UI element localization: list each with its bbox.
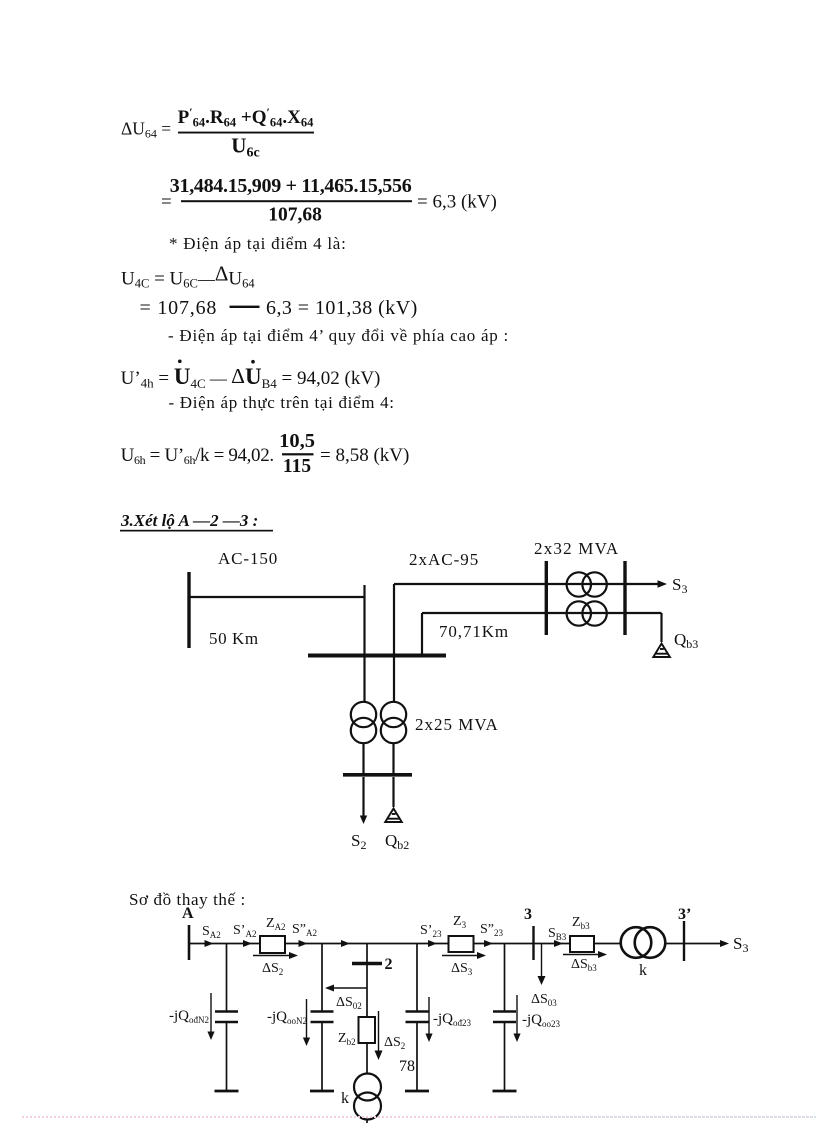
svg-text:-jQooN2: -jQooN2 <box>267 1009 307 1026</box>
svg-text:6,3 = 101,38 (kV): 6,3 = 101,38 (kV) <box>266 297 418 319</box>
svg-text:2x25 MVA: 2x25 MVA <box>415 715 499 734</box>
svg-text:= 6,3 (kV): = 6,3 (kV) <box>417 192 497 213</box>
svg-text:31,484.15,909 + 11,465.15,556: 31,484.15,909 + 11,465.15,556 <box>170 175 412 197</box>
svg-text:S”23: S”23 <box>480 922 504 938</box>
svg-text:ΔSb3: ΔSb3 <box>571 957 597 973</box>
svg-text:Qb3: Qb3 <box>674 630 698 651</box>
svg-text:= 8,58 (kV): = 8,58 (kV) <box>320 445 409 466</box>
svg-text:70,71Km: 70,71Km <box>439 622 509 641</box>
svg-text:S3: S3 <box>672 575 687 596</box>
svg-text:S’23: S’23 <box>420 923 442 939</box>
svg-text:ΔS2: ΔS2 <box>384 1035 405 1051</box>
svg-text:U6c: U6c <box>231 134 259 161</box>
svg-text:= 107,68: = 107,68 <box>140 297 218 319</box>
svg-text:Z3: Z3 <box>453 914 467 930</box>
svg-text:U6h = U’6h/k = 94,02.: U6h = U’6h/k = 94,02. <box>121 445 274 467</box>
svg-text:50 Km: 50 Km <box>209 629 259 648</box>
svg-text:3: 3 <box>524 906 532 923</box>
svg-text:U4C = U6C—ΔU64: U4C = U6C—ΔU64 <box>121 261 255 290</box>
svg-text:P′64.R64 +Q′64.X64: P′64.R64 +Q′64.X64 <box>178 105 314 130</box>
svg-text:ΔS3: ΔS3 <box>451 961 473 977</box>
svg-text:SA2: SA2 <box>202 924 221 940</box>
svg-text:Qb2: Qb2 <box>385 831 409 852</box>
svg-text:ZA2: ZA2 <box>266 916 286 932</box>
svg-text:-jQoo23: -jQoo23 <box>522 1012 561 1029</box>
svg-text:S2: S2 <box>351 831 366 852</box>
svg-text:Zb3: Zb3 <box>572 915 590 931</box>
svg-text:3.Xét lộ A —2 —3 :: 3.Xét lộ A —2 —3 : <box>120 511 258 530</box>
svg-text:AC-150: AC-150 <box>218 549 278 568</box>
svg-text:k: k <box>639 962 647 979</box>
svg-text:Zb2: Zb2 <box>338 1031 356 1047</box>
svg-text:- Điện áp thực trên tại điểm 4: - Điện áp thực trên tại điểm 4: <box>169 393 395 412</box>
svg-text:ΔS03: ΔS03 <box>531 992 557 1008</box>
svg-text:10,5: 10,5 <box>279 430 315 452</box>
svg-text:* Điện áp tại điểm 4 là:: * Điện áp tại điểm 4 là: <box>169 234 347 253</box>
svg-text:-jQođ23: -jQođ23 <box>433 1011 472 1028</box>
svg-text:S”A2: S”A2 <box>292 922 317 938</box>
svg-text:115: 115 <box>283 456 311 477</box>
svg-text:ΔS2: ΔS2 <box>262 961 283 977</box>
svg-text:U’4h = U4C — ΔUB4 = 94,02 (kV): U’4h = U4C — ΔUB4 = 94,02 (kV) <box>121 364 381 391</box>
svg-text:78: 78 <box>399 1058 415 1075</box>
svg-text:ΔS02: ΔS02 <box>336 995 362 1011</box>
svg-text:2x32 MVA: 2x32 MVA <box>534 539 619 558</box>
svg-text:ΔU64 =: ΔU64 = <box>121 119 171 141</box>
svg-text:3’: 3’ <box>678 906 691 923</box>
svg-text:- Điện áp tại điểm 4’ quy đổi: - Điện áp tại điểm 4’ quy đổi về phía ca… <box>168 326 509 345</box>
svg-text:-jQođN2: -jQođN2 <box>169 1008 209 1025</box>
svg-text:SB3: SB3 <box>548 926 567 942</box>
svg-text:k: k <box>341 1090 349 1107</box>
svg-text:2xAC-95: 2xAC-95 <box>409 550 479 569</box>
svg-text:S’A2: S’A2 <box>233 923 256 939</box>
svg-text:107,68: 107,68 <box>268 205 322 226</box>
svg-text:2: 2 <box>385 956 393 973</box>
svg-text:A: A <box>182 905 194 922</box>
svg-text:S3: S3 <box>733 934 748 955</box>
